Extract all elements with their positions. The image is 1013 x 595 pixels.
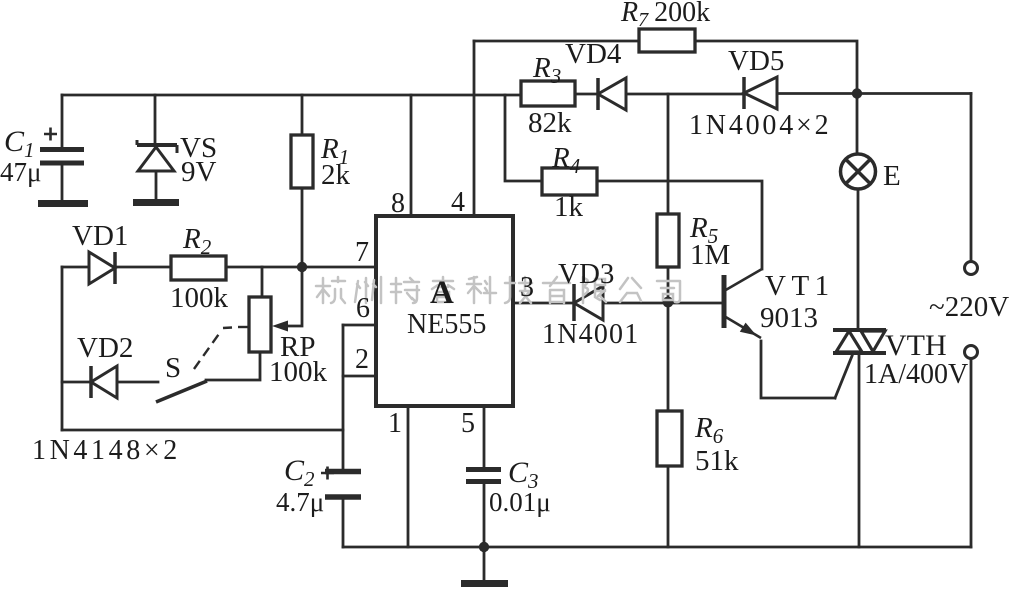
svg-text:1M: 1M xyxy=(690,239,730,271)
wire VD3 to node xyxy=(603,302,724,305)
resistor R4 1k xyxy=(542,168,597,195)
svg-text:NE555: NE555 xyxy=(407,309,486,340)
wire R7 line right xyxy=(695,41,857,94)
wire triac gate xyxy=(835,356,852,398)
svg-text:7: 7 xyxy=(355,237,369,268)
svg-text:100k: 100k xyxy=(269,356,328,388)
wire RP wiper arm xyxy=(284,267,302,326)
wire R5 to node xyxy=(667,267,670,302)
wire VD4 to VD5 xyxy=(626,93,744,96)
potentiometer RP wiper arrow xyxy=(272,321,288,332)
wire pin6-2-C2 vertical xyxy=(342,325,345,469)
svg-text:VD3: VD3 xyxy=(558,258,614,290)
terminal lower xyxy=(965,346,978,359)
wire node to R6 xyxy=(667,302,670,411)
svg-text:VD5: VD5 xyxy=(728,45,784,77)
svg-text:82k: 82k xyxy=(528,107,572,139)
wire VS stem top xyxy=(154,95,157,145)
wire bottom loop xyxy=(62,429,343,432)
svg-text:A: A xyxy=(430,275,454,311)
resistor R3 82k xyxy=(521,81,575,106)
svg-text:8: 8 xyxy=(391,188,405,219)
terminal upper xyxy=(965,262,978,275)
svg-text:47μ: 47μ xyxy=(0,157,41,187)
wire lower terminal stem xyxy=(970,359,973,547)
svg-text:1N4001: 1N4001 xyxy=(542,319,639,350)
diode VD1 xyxy=(89,252,115,284)
transistor VT1 emitter arrow xyxy=(740,323,757,336)
svg-text:VD4: VD4 xyxy=(565,38,622,70)
resistor R1 2k xyxy=(291,135,313,188)
diode VD3 xyxy=(574,284,603,321)
wire C1 stem bottom xyxy=(61,165,64,200)
wire lamp to triac xyxy=(857,190,860,330)
wire emitter to gate xyxy=(761,341,835,398)
svg-text:R2: R2 xyxy=(182,223,212,259)
svg-text:R3: R3 xyxy=(532,52,561,88)
junction node C3/ground xyxy=(479,542,489,552)
wire left vertical xyxy=(61,267,64,430)
wire R7 line left xyxy=(474,40,639,43)
ground bar xyxy=(461,580,508,587)
wire C1 stem top xyxy=(61,95,64,147)
wire VD1 to R2 xyxy=(115,266,171,269)
svg-text:4.7μ: 4.7μ xyxy=(276,487,324,517)
diode VD5 xyxy=(744,77,777,109)
wire pin2 xyxy=(343,375,376,378)
wire pin4 vertical xyxy=(473,41,476,215)
wire triac to bus xyxy=(858,353,861,547)
lamp E xyxy=(841,154,876,189)
wire RP bottom stem xyxy=(206,352,260,380)
wire pin1 vertical xyxy=(407,406,410,547)
resistor R7 200k xyxy=(639,29,695,52)
svg-text:1N4148×2: 1N4148×2 xyxy=(32,435,181,466)
wire VD2 anode row xyxy=(117,381,158,384)
transistor Q VT1 9013 xyxy=(724,269,762,338)
svg-text:VD2: VD2 xyxy=(77,332,133,364)
resistor R5 1M xyxy=(657,214,679,267)
wire RP top stem xyxy=(261,267,264,297)
wire pin8 vertical xyxy=(410,95,413,215)
wire ground stem xyxy=(483,547,486,580)
wire top rail left xyxy=(62,94,521,97)
svg-text:0.01μ: 0.01μ xyxy=(489,487,551,517)
diode VD4 xyxy=(598,78,626,110)
capacitor C1 plus sign xyxy=(44,128,57,141)
wire VD1 anode xyxy=(62,266,89,269)
wire pin5 to C3 xyxy=(483,406,486,467)
capacitor C3 plates xyxy=(466,470,501,482)
svg-text:VTH: VTH xyxy=(885,329,947,362)
svg-text:9013: 9013 xyxy=(760,302,818,334)
junction node R7/VD5/lamp xyxy=(852,88,862,98)
wire VS stem bottom xyxy=(155,171,158,200)
wire R1 stem top xyxy=(301,95,304,135)
zener VS bottom bar xyxy=(133,199,179,206)
switch S dashed link xyxy=(194,327,249,369)
svg-text:2k: 2k xyxy=(321,159,351,191)
svg-text:VT1: VT1 xyxy=(765,270,835,302)
svg-text:~220V: ~220V xyxy=(929,291,1009,323)
wire R4 to collector corner xyxy=(597,181,762,269)
capacitor C2 plates xyxy=(325,472,361,498)
wire R2 to pin7 xyxy=(226,266,376,269)
svg-text:S: S xyxy=(165,352,181,384)
watermark company text xyxy=(316,277,680,303)
svg-text:4: 4 xyxy=(451,187,465,218)
svg-text:R7200k: R7200k xyxy=(620,0,710,31)
switch S blade xyxy=(156,381,207,402)
diode VD2 xyxy=(91,366,117,398)
wire bottom bus xyxy=(343,546,971,549)
wire C3 bottom stem xyxy=(483,484,486,547)
capacitor C2 plus sign xyxy=(321,467,334,480)
junction node VD3/R5/R6/base xyxy=(663,297,674,308)
svg-text:1k: 1k xyxy=(554,191,584,223)
potentiometer RP 100k body xyxy=(249,297,271,352)
wire drop to upper terminal xyxy=(970,94,973,262)
svg-text:E: E xyxy=(883,160,901,192)
wire R3 left tap xyxy=(505,95,542,181)
svg-text:51k: 51k xyxy=(695,445,739,477)
svg-text:1: 1 xyxy=(388,408,402,439)
wire pin6 xyxy=(343,324,376,327)
svg-text:5: 5 xyxy=(461,408,475,439)
triac VTH xyxy=(833,330,886,353)
svg-text:1N4004×2: 1N4004×2 xyxy=(689,110,831,141)
resistor R2 100k xyxy=(171,256,226,280)
svg-text:6: 6 xyxy=(356,293,370,324)
wire VD5 to right corner xyxy=(777,92,971,95)
wire R1 stem bottom xyxy=(301,188,304,267)
svg-text:2: 2 xyxy=(355,344,369,375)
wire rail R3 to VD4 xyxy=(575,93,598,96)
wire pin3 to VD3 xyxy=(513,302,574,305)
wire C2 bottom stem xyxy=(342,500,345,547)
svg-text:3: 3 xyxy=(520,272,534,303)
zener diode VS 9V xyxy=(137,140,177,171)
svg-text:1A/400V: 1A/400V xyxy=(864,359,968,390)
svg-text:100k: 100k xyxy=(170,282,229,314)
wire VD2 cathode stub xyxy=(62,381,91,384)
svg-text:9V: 9V xyxy=(181,156,217,188)
svg-text:R6: R6 xyxy=(694,412,724,448)
wire R5 top stem xyxy=(667,94,670,214)
svg-text:C2: C2 xyxy=(284,454,315,491)
junction node R1/R2/pin7 xyxy=(297,262,307,272)
wire R6 to bus xyxy=(667,466,670,547)
svg-text:VD1: VD1 xyxy=(72,220,128,252)
IC U A NE555 box xyxy=(376,216,513,406)
capacitor C1 plates xyxy=(40,150,84,164)
capacitor C1 bottom bar xyxy=(38,200,88,207)
wire lamp drop xyxy=(856,94,859,154)
svg-text:R4: R4 xyxy=(551,142,581,178)
resistor R6 51k xyxy=(657,411,682,466)
